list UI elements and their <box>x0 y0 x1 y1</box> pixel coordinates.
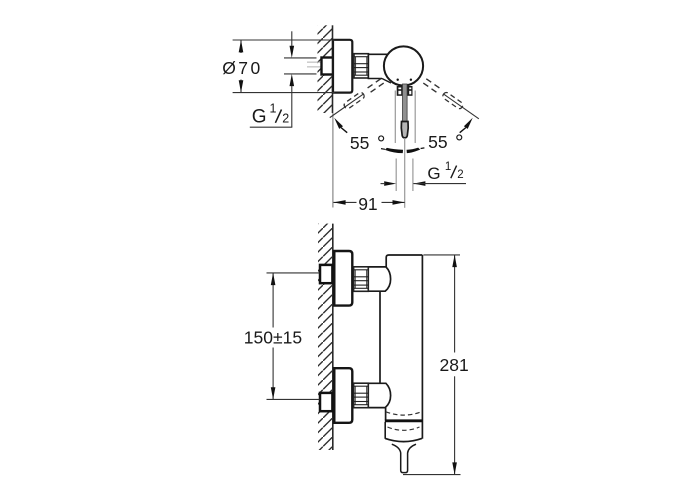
body fill <box>380 255 422 439</box>
lever shaft (gray) <box>403 84 408 122</box>
dimension G1/2 (wall) extension lines <box>284 57 317 59</box>
G1/2 arrow left side pointing right <box>384 181 396 186</box>
escutcheon (top view) <box>333 40 352 93</box>
wall (front view) hatching <box>318 224 333 450</box>
svg-text:1: 1 <box>445 161 451 173</box>
body left edge middle <box>379 291 381 383</box>
dimension 91 line <box>333 201 356 203</box>
hidden thread dashed arc in body bottom <box>386 412 422 415</box>
dimension 150+-15 line and arrows <box>272 273 274 328</box>
lever edge extension lines for swing arc <box>394 91 396 144</box>
dashed lever rotated left 55 <box>328 78 384 120</box>
angle arc arrowhead right <box>464 118 473 129</box>
union nut (top view) <box>354 54 368 78</box>
swing double curved arrow <box>386 148 403 152</box>
svg-text:°: ° <box>377 131 386 156</box>
lever tip (gray) <box>401 122 408 138</box>
G1/2 extension lines at lever <box>395 159 397 192</box>
dimension O70 line and arrows <box>240 40 242 53</box>
svg-text:Ø70: Ø70 <box>222 58 262 78</box>
lower S-union elbow <box>354 383 391 407</box>
svg-text:°: ° <box>455 130 464 155</box>
shower outlet block <box>385 419 423 422</box>
lower escutcheon <box>334 368 352 423</box>
leader line under left G1/2 <box>250 126 292 128</box>
dimension 281 extension lines <box>423 254 460 256</box>
extension line of wall face down to 91 dimension <box>332 113 334 208</box>
svg-text:91: 91 <box>358 194 377 214</box>
lower union nut (front) <box>354 383 369 408</box>
dashed lever rotated right 55 <box>423 78 481 121</box>
wall face line (top view) <box>332 25 334 113</box>
wall face line (front view) <box>332 224 334 450</box>
lever base block <box>397 86 413 96</box>
handle circle (top view) <box>384 46 423 85</box>
svg-text:1: 1 <box>270 102 277 116</box>
svg-text:2: 2 <box>457 169 463 181</box>
body right edge <box>421 255 423 439</box>
upper wall connection nut <box>320 265 332 283</box>
dimension G1/2 (wall) arrows outside <box>291 31 293 46</box>
dimension 281 line and arrows <box>454 255 456 353</box>
valve housing (top view) <box>368 54 388 78</box>
lower wall connection nut <box>320 393 332 411</box>
svg-text:150±15: 150±15 <box>244 328 302 348</box>
svg-text:55: 55 <box>428 132 447 152</box>
svg-text:G: G <box>252 107 267 128</box>
supply pipe hidden lines (gray) <box>307 61 332 63</box>
svg-text:55: 55 <box>350 133 369 153</box>
body cap outline <box>386 255 422 267</box>
upper union nut (front) <box>354 267 369 292</box>
hidden thread dashed arc in outlet block <box>388 427 420 430</box>
dimension 150+-15 extension lines <box>267 272 320 274</box>
dimension O70 extension lines <box>233 39 335 41</box>
body left edge lower <box>385 408 387 420</box>
chamfer to lever base <box>382 79 391 84</box>
G1/2 wall connection square (top view) <box>322 58 334 75</box>
upper S-union elbow <box>354 267 391 291</box>
svg-text:281: 281 <box>440 355 469 375</box>
svg-text:G: G <box>427 164 440 183</box>
hose nipple below outlet <box>392 444 416 472</box>
lever centre line <box>404 138 406 208</box>
screw dots on handle <box>397 79 399 81</box>
angle arc arrowhead left <box>334 118 343 129</box>
svg-text:2: 2 <box>282 112 289 126</box>
wall (top view) hatching <box>318 25 333 113</box>
upper escutcheon <box>334 251 352 306</box>
leader line under right G1/2 with arrow <box>413 181 425 186</box>
